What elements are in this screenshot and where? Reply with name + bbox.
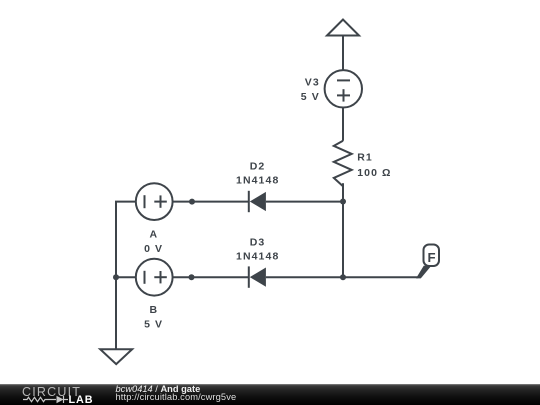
flag F tail (416, 266, 431, 279)
wire D3 to F (266, 276, 418, 278)
svg-text:B: B (150, 304, 159, 316)
wire V3 to R1 (342, 108, 344, 141)
wire A left corner down (116, 202, 136, 278)
diode D3 cathode bar (248, 266, 250, 287)
svg-text:D3: D3 (250, 237, 266, 249)
flag F box (424, 245, 440, 267)
wire R1 to node (342, 183, 344, 201)
diode D3 triangle (250, 268, 266, 287)
wire B stub left (116, 276, 136, 278)
svg-text:0 V: 0 V (144, 243, 163, 255)
wire B to D3 (173, 276, 249, 278)
wire down to ground (115, 277, 117, 349)
wire A to D2 (173, 201, 249, 203)
diode D2 triangle (250, 192, 266, 211)
footer bar (0, 384, 540, 405)
svg-text:F: F (427, 250, 435, 265)
svg-text:5 V: 5 V (301, 91, 320, 103)
junction dots (113, 199, 346, 281)
diode D2 cathode bar (248, 191, 250, 212)
circuitlab logo (0, 384, 110, 405)
svg-text:1N4148: 1N4148 (236, 251, 279, 263)
wire VCC to V3 (342, 36, 344, 71)
svg-text:D2: D2 (250, 161, 266, 173)
ground (100, 349, 132, 364)
voltage source A (136, 183, 173, 220)
resistor R1 (334, 141, 352, 186)
svg-text:5 V: 5 V (144, 319, 163, 331)
VCC power symbol (327, 20, 359, 36)
svg-text:R1: R1 (357, 152, 373, 164)
voltage source B (136, 259, 173, 296)
svg-text:V3: V3 (305, 76, 320, 88)
node vertical wire (342, 201, 344, 277)
wire D2 to node (266, 201, 343, 203)
voltage source V3 (325, 70, 362, 107)
svg-text:100 Ω: 100 Ω (357, 167, 391, 179)
svg-text:A: A (150, 229, 159, 241)
svg-text:LAB: LAB (69, 394, 94, 405)
svg-text:1N4148: 1N4148 (236, 175, 279, 187)
